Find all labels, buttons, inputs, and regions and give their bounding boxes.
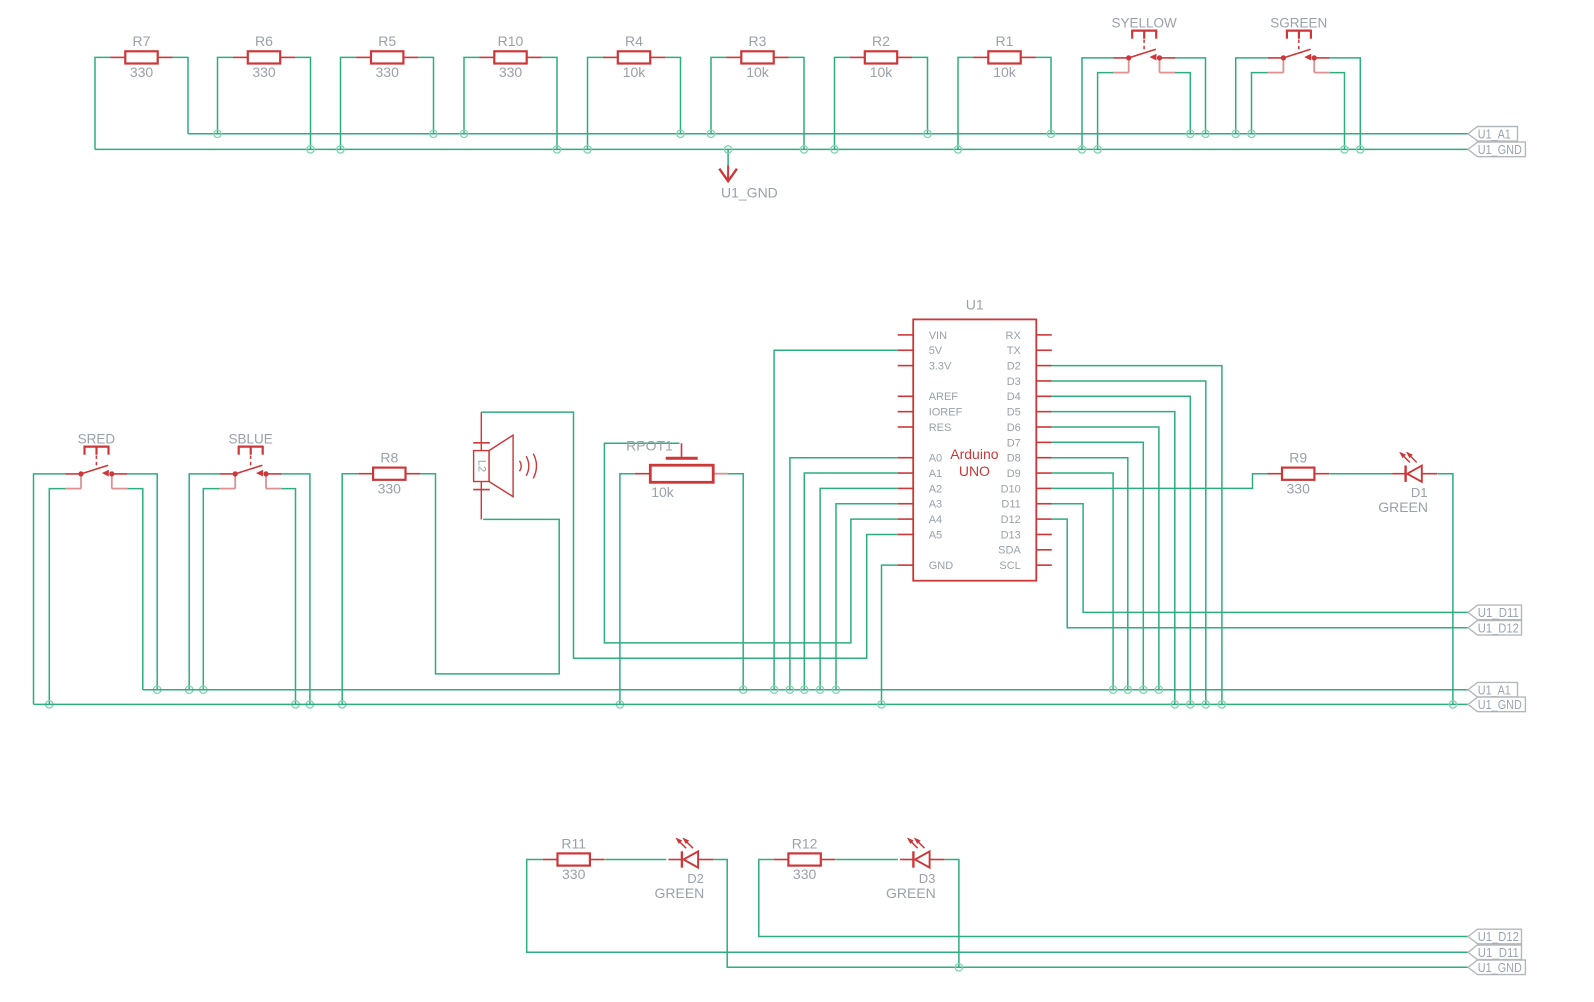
svg-text:R10: R10: [498, 33, 524, 49]
op-amp U1 Arduino UNO: [898, 297, 1052, 581]
svg-text:330: 330: [499, 64, 523, 80]
wire U1 A2 to A1 bus: [820, 488, 898, 689]
svg-text:UNO: UNO: [959, 463, 990, 479]
wire U1 A1 to A1 bus: [804, 473, 897, 690]
wire SBLUE pin1 to A1 bus: [189, 474, 219, 690]
wire R8 right to speaker: [420, 474, 559, 674]
resistor R3: [727, 33, 789, 80]
svg-text:U1_GND: U1_GND: [1478, 142, 1522, 157]
wire R2 left to GND bus: [835, 57, 851, 149]
svg-text:L2: L2: [475, 460, 487, 472]
wire SRED pin4 to A1 bus: [127, 489, 142, 690]
svg-text:330: 330: [252, 64, 276, 80]
junction at (340.5,149.4): [337, 146, 344, 153]
svg-text:330: 330: [378, 480, 402, 496]
wire SGREEN pin1 to A1 bus: [1236, 58, 1268, 134]
junction SYELLOW pin3: [1202, 130, 1209, 137]
wire SBLUE pin2 to A1 bus: [203, 489, 219, 690]
junction SBLUE pin4: [292, 701, 299, 708]
wire top U1_GND bus: [95, 148, 1468, 150]
svg-text:RPOT1: RPOT1: [626, 438, 673, 454]
junction at (927.5,133.8): [924, 130, 931, 137]
svg-text:D6: D6: [1007, 422, 1021, 434]
junction RPOT1 left: [616, 701, 623, 708]
svg-text:R7: R7: [133, 33, 151, 49]
wire D3 to U1_GND net: [945, 860, 959, 968]
resistor R12: [774, 835, 836, 882]
wire R9 to D1: [1330, 473, 1393, 475]
wire R6 left to A1 bus: [218, 57, 234, 133]
svg-text:R11: R11: [561, 835, 586, 851]
junction at (557,149.4): [553, 146, 560, 153]
svg-text:D12: D12: [1001, 514, 1021, 526]
junction A0: [786, 686, 793, 693]
wire RPOT1 left to GND bus: [620, 474, 635, 705]
wire R3 right to GND bus: [789, 57, 805, 149]
svg-text:330: 330: [1287, 480, 1311, 496]
svg-text:SGREEN: SGREEN: [1270, 16, 1327, 31]
svg-text:R6: R6: [255, 33, 273, 49]
wire top U1_A1 bus: [188, 133, 1468, 135]
wire R5 right to A1 bus: [418, 57, 433, 133]
svg-text:D2: D2: [1007, 361, 1021, 373]
LED D3: [886, 838, 945, 901]
junction at (680.5,133.8): [677, 130, 684, 137]
LED D2: [655, 838, 714, 901]
junction at (711,133.8): [707, 130, 714, 137]
svg-text:A2: A2: [929, 483, 942, 495]
net flag U1_D12: [1468, 621, 1522, 636]
svg-text:D10: D10: [1001, 483, 1021, 495]
junction R8 left: [339, 701, 346, 708]
wire speaker top to U1 A5: [481, 412, 897, 658]
wire R4 left to GND bus: [588, 57, 604, 149]
net flag U1_D12: [1468, 929, 1522, 944]
svg-text:10k: 10k: [651, 484, 675, 500]
wire R10 right to GND bus: [542, 57, 558, 149]
svg-text:AREF: AREF: [929, 391, 959, 403]
junction A3: [832, 686, 839, 693]
wire SGREEN pin2 to A1 bus: [1252, 73, 1268, 134]
svg-text:A3: A3: [929, 499, 942, 511]
junction at (217.5,133.8): [214, 130, 221, 137]
svg-text:R2: R2: [872, 33, 890, 49]
svg-text:GREEN: GREEN: [655, 885, 705, 901]
wire SYELLOW pin3 to A1 bus: [1175, 58, 1206, 134]
junction at (834.5,149.4): [831, 146, 838, 153]
svg-text:U1_GND: U1_GND: [1478, 960, 1522, 975]
wire R2 right to A1 bus: [912, 57, 928, 133]
potentiometer RPOT1: [626, 438, 727, 500]
wire U1 D2 to GND bus: [1052, 366, 1222, 705]
junction RPOT1 right: [740, 686, 747, 693]
svg-text:A1: A1: [929, 468, 942, 480]
junction D7: [1140, 686, 1147, 693]
resistor R8: [358, 450, 420, 497]
svg-text:D11: D11: [1001, 499, 1020, 511]
net flag U1_D11: [1468, 945, 1522, 960]
wire U1 5V to A1 bus: [774, 350, 898, 690]
junction SBLUE pin1: [186, 686, 193, 693]
net flag U1_A1: [1468, 682, 1518, 697]
ground U1_GND arrow: [719, 149, 777, 200]
wire A1 bus mid: [143, 689, 1468, 691]
svg-text:10k: 10k: [746, 64, 770, 80]
svg-text:R5: R5: [378, 33, 396, 49]
wire U1 A3 to A1 bus: [836, 504, 898, 690]
wire R7 right to A1 bus: [173, 57, 189, 133]
net flag U1_D11: [1468, 605, 1522, 620]
svg-text:D13: D13: [1001, 529, 1021, 541]
junction D5: [1171, 701, 1178, 708]
junction SGREEN pin3: [1357, 146, 1364, 153]
junction D9: [1109, 686, 1116, 693]
junction SBLUE pin3: [306, 701, 313, 708]
LED D1: [1378, 452, 1437, 515]
svg-text:R1: R1: [996, 33, 1014, 49]
junction ground stub: [724, 146, 731, 153]
svg-text:R3: R3: [749, 33, 767, 49]
svg-text:R12: R12: [792, 835, 818, 851]
wire R10 left to A1 bus: [464, 57, 480, 133]
junction at (310.5,149.4): [307, 146, 314, 153]
junction SYELLOW pin2: [1094, 146, 1101, 153]
svg-text:330: 330: [562, 866, 586, 882]
junction D2: [1218, 701, 1225, 708]
junction SRED pin3: [154, 686, 161, 693]
svg-text:GREEN: GREEN: [886, 885, 936, 901]
svg-text:330: 330: [793, 866, 817, 882]
wire R7 left to GND bus: [95, 57, 111, 149]
junction SRED pin2: [46, 701, 53, 708]
svg-text:D9: D9: [1007, 468, 1021, 480]
junction D3 to GND: [955, 964, 962, 971]
wire R8 left to GND bus: [342, 474, 358, 705]
net flag U1_A1: [1468, 127, 1518, 142]
wire U1 D4 to GND bus: [1052, 396, 1191, 704]
wire U1 D10 to R9: [1052, 474, 1268, 489]
wire U1 D9 to A1 bus: [1052, 473, 1113, 690]
junction D1: [1449, 701, 1456, 708]
svg-text:U1_D11: U1_D11: [1478, 945, 1519, 960]
switch SGREEN: [1268, 16, 1330, 73]
junction D3: [1202, 701, 1209, 708]
junction SGREEN pin1: [1232, 130, 1239, 137]
junction 5V: [770, 686, 777, 693]
wire SBLUE pin3 to GND bus: [282, 474, 310, 705]
switch SRED: [65, 432, 127, 489]
resistor R2: [850, 33, 912, 80]
svg-text:10k: 10k: [870, 64, 894, 80]
svg-text:U1: U1: [966, 297, 984, 313]
svg-text:D3: D3: [1007, 376, 1021, 388]
resistor R10: [480, 33, 542, 80]
junction D6: [1155, 686, 1162, 693]
wire U1 A0 to A1 bus: [790, 458, 898, 690]
svg-text:D5: D5: [1007, 407, 1021, 419]
resistor R1: [974, 33, 1036, 80]
wire RPOT1 right to A1 bus: [728, 474, 744, 690]
wire R1 left to GND bus: [958, 57, 974, 149]
wire U1 D12 to flag: [1052, 519, 1468, 628]
wire U1 D8 to A1 bus: [1052, 458, 1128, 690]
wire U1 D3 to GND bus: [1052, 381, 1206, 704]
wire D1 to GND bus: [1437, 474, 1453, 705]
wire RPOT1 wiper to U1 A4: [604, 443, 897, 643]
junction SGREEN pin2: [1248, 130, 1255, 137]
svg-text:D4: D4: [1007, 391, 1021, 403]
speaker L2: [473, 412, 536, 519]
svg-text:10k: 10k: [623, 64, 647, 80]
net flag U1_GND: [1468, 142, 1525, 157]
svg-text:A5: A5: [929, 529, 942, 541]
svg-text:D7: D7: [1007, 437, 1021, 449]
wire SGREEN pin4 to GND bus: [1330, 73, 1345, 150]
junction SYELLOW pin1: [1078, 146, 1085, 153]
switch SYELLOW: [1111, 16, 1177, 73]
svg-text:U1_D12: U1_D12: [1478, 621, 1519, 636]
svg-text:A4: A4: [929, 514, 942, 526]
junction D8: [1124, 686, 1131, 693]
junction at (958,149.4): [954, 146, 961, 153]
resistor R4: [603, 33, 665, 80]
svg-text:U1_GND: U1_GND: [721, 185, 778, 201]
wire U1 D5 to GND bus: [1052, 412, 1175, 705]
svg-text:RES: RES: [929, 422, 952, 434]
junction A2: [816, 686, 823, 693]
svg-text:3.3V: 3.3V: [929, 361, 952, 373]
wire R6 right to GND bus: [295, 57, 311, 149]
wire SYELLOW pin4 to A1 bus: [1175, 73, 1190, 134]
wire GND bus mid: [34, 703, 1469, 705]
svg-text:GND: GND: [929, 560, 954, 572]
wire SGREEN pin3 to GND bus: [1330, 58, 1361, 149]
svg-text:A0: A0: [929, 453, 942, 465]
svg-text:SCL: SCL: [999, 560, 1020, 572]
svg-text:D8: D8: [1007, 453, 1021, 465]
wire SRED pin2 to GND bus: [49, 489, 65, 705]
wire R1 right to A1 bus: [1036, 57, 1052, 133]
junction A1: [801, 686, 808, 693]
junction SBLUE pin2: [200, 686, 207, 693]
junction D4: [1187, 701, 1194, 708]
net flag U1_GND: [1468, 697, 1525, 712]
svg-text:R4: R4: [625, 33, 643, 49]
wire SRED pin3 to A1 bus: [127, 474, 157, 690]
junction at (1051,133.8): [1047, 130, 1054, 137]
svg-text:330: 330: [376, 64, 400, 80]
svg-text:U1_D12: U1_D12: [1478, 929, 1519, 944]
wire U1 GND to GND bus: [882, 565, 898, 704]
svg-text:U1_GND: U1_GND: [1478, 697, 1522, 712]
resistor R5: [356, 33, 418, 80]
wire U1 D7 to A1 bus: [1052, 442, 1144, 689]
switch SBLUE: [220, 432, 282, 489]
svg-text:U1_A1: U1_A1: [1478, 127, 1511, 142]
svg-text:SBLUE: SBLUE: [228, 432, 272, 447]
resistor R11: [543, 835, 605, 882]
svg-text:RX: RX: [1006, 330, 1022, 342]
wire R11 to D2: [605, 859, 666, 861]
svg-text:TX: TX: [1007, 345, 1022, 357]
junction SGREEN pin4: [1341, 146, 1348, 153]
svg-text:SRED: SRED: [78, 432, 116, 447]
svg-text:SDA: SDA: [998, 545, 1021, 557]
svg-text:SYELLOW: SYELLOW: [1111, 16, 1177, 31]
wire SRED pin1 to GND bus: [34, 474, 66, 705]
svg-text:R9: R9: [1289, 450, 1307, 466]
svg-text:IOREF: IOREF: [929, 407, 963, 419]
resistor R9: [1267, 450, 1329, 497]
resistor R7: [111, 33, 173, 80]
junction at (464,133.8): [460, 130, 467, 137]
svg-text:Arduino: Arduino: [950, 446, 998, 462]
wire SYELLOW pin2 to GND bus: [1098, 73, 1114, 150]
wire R4 right to A1 bus: [665, 57, 681, 133]
svg-text:10k: 10k: [993, 64, 1017, 80]
wire R11 left to U1_D11 flag: [527, 860, 1468, 953]
svg-text:D2: D2: [687, 871, 704, 886]
junction SYELLOW pin4: [1187, 130, 1194, 137]
svg-text:R8: R8: [380, 450, 398, 466]
junction U1 GND: [878, 701, 885, 708]
wire R3 left to A1 bus: [711, 57, 727, 133]
svg-text:VIN: VIN: [929, 330, 947, 342]
svg-text:U1_D11: U1_D11: [1478, 605, 1519, 620]
junction at (433.5,133.8): [430, 130, 437, 137]
junction at (804,149.4): [800, 146, 807, 153]
wire SBLUE pin4 to GND bus: [282, 489, 296, 705]
svg-text:D1: D1: [1411, 485, 1428, 500]
wire U1 D11 to flag: [1052, 504, 1468, 613]
svg-text:330: 330: [130, 64, 154, 80]
net flag U1_GND: [1468, 960, 1525, 975]
svg-text:U1_A1: U1_A1: [1478, 682, 1511, 697]
svg-text:5V: 5V: [929, 345, 943, 357]
wire R12 left to U1_D12 flag: [759, 860, 1468, 937]
wire D2 to U1_GND flag: [713, 860, 1468, 968]
wire SYELLOW pin1 to GND bus: [1082, 58, 1113, 149]
wire R12 to D3: [836, 859, 898, 861]
wire R5 left to GND bus: [341, 57, 357, 149]
resistor R6: [233, 33, 295, 80]
svg-text:GREEN: GREEN: [1378, 499, 1428, 515]
wire U1 D6 to A1 bus: [1052, 427, 1159, 690]
junction at (587.5,149.4): [584, 146, 591, 153]
svg-text:D3: D3: [919, 871, 936, 886]
